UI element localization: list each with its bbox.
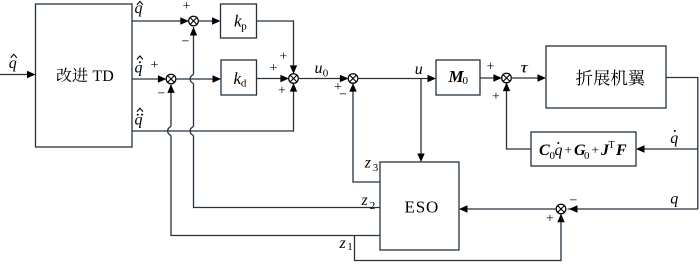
svg-text:+: + [280,50,288,65]
sign minus S6 [570,194,578,209]
sign plus S3 top [280,50,288,65]
svg-text:2: 2 [370,200,376,212]
summing junction S5 [502,73,512,83]
wire TD qddot to S3 [132,83,297,131]
svg-text:q: q [135,59,143,76]
wire hop z2 over middle wire [190,75,193,84]
sign minus S4 [339,88,347,103]
wire TD to middle junction [132,75,166,82]
block C0qdot+G0+JTF [531,132,636,166]
block kp [221,4,257,38]
svg-text:z: z [339,235,347,252]
svg-text:T: T [609,140,615,151]
wire S5 to wing [511,74,546,81]
svg-text:+: + [270,61,278,76]
svg-text:z: z [361,192,369,209]
wire u branch down to ESO [417,79,424,163]
input reference wire into TD [0,71,36,78]
sign minus S1 [182,35,190,50]
wire z1 branch to S6 [355,214,565,261]
label q-hat input [9,54,17,72]
svg-text:+: + [278,84,286,99]
svg-text:TD: TD [93,68,114,85]
svg-text:0: 0 [584,150,590,162]
svg-text:u: u [415,61,423,78]
summing junction S3 [289,74,299,84]
svg-text:q: q [670,130,678,147]
wire S6 to ESO [459,205,556,212]
wire z1 to S2 [167,84,380,235]
svg-text:−: − [158,87,166,102]
svg-text:ESO: ESO [405,198,440,217]
wire hop z1 over qddot [168,127,171,136]
sign plus S5 bottom [492,90,500,105]
svg-text:3: 3 [373,162,379,174]
wire hop z2 over qddot [190,127,193,136]
svg-text:+: + [151,58,159,73]
svg-text:0: 0 [463,75,469,87]
svg-text:+: + [487,60,495,75]
block folding-wing [546,46,666,108]
summing junction S1 [189,16,199,26]
label z1 [339,235,353,253]
svg-text:q: q [9,55,17,72]
summing junction S2 [166,74,176,84]
svg-text:+: + [546,212,554,227]
svg-text:+: + [565,142,572,157]
svg-text:C: C [539,142,550,159]
wire z2 to S1 [190,27,380,208]
wire TD to top junction [132,17,189,24]
svg-text:d: d [241,77,247,89]
label q [670,191,678,208]
svg-text:F: F [615,142,627,159]
svg-text:−: − [182,35,190,50]
sign plus S5 left [487,60,495,75]
label q-hat top [135,0,143,17]
label z3 [364,154,379,174]
wire S1 to kp [198,17,220,24]
wire wing output right and down [666,78,698,210]
label qdot [670,130,678,147]
block ESO [380,162,459,250]
block M0 [436,60,480,95]
svg-text:q: q [555,142,563,159]
summing junction S4 [348,74,358,84]
sign minus S2 [158,87,166,102]
wire C0 to S5 [503,83,531,149]
summing junction S6 [556,204,566,214]
svg-text:+: + [492,90,500,105]
wire S4 to M0 [358,75,436,82]
block improved-TD [36,4,133,147]
wire q to junction S6 [568,205,698,212]
svg-text:u: u [315,60,323,77]
label qddot-hat [135,108,144,128]
svg-text:z: z [364,154,372,171]
label u0 [315,60,329,80]
svg-text:q: q [670,191,678,208]
wire S2 to kd [176,75,221,82]
svg-text:−: − [339,88,347,103]
svg-text:p: p [241,20,247,32]
wire S3 to S4 [298,75,348,82]
svg-text:1: 1 [347,241,353,253]
wire kp to S3 [257,21,298,74]
wire z3 to S4 [349,83,380,182]
sign plus S2 [151,58,159,73]
label tau [521,60,530,77]
label qdot-hat [135,56,143,76]
label z2 [361,192,376,212]
svg-text:+: + [592,142,599,157]
wire kd to S3 [257,75,289,82]
sign plus S4 [334,80,342,95]
sign plus S1 [183,0,191,14]
label u [415,61,423,78]
wire M0 to S5 [480,74,502,81]
sign plus S3 left [270,61,278,76]
svg-text:+: + [183,0,191,14]
wire qdot branch to C0 block [636,145,698,152]
svg-text:0: 0 [323,68,329,80]
block kd [221,60,257,95]
sign plus S3 bottom [278,84,286,99]
svg-text:−: − [570,194,578,209]
sign plus S6 [546,212,554,227]
